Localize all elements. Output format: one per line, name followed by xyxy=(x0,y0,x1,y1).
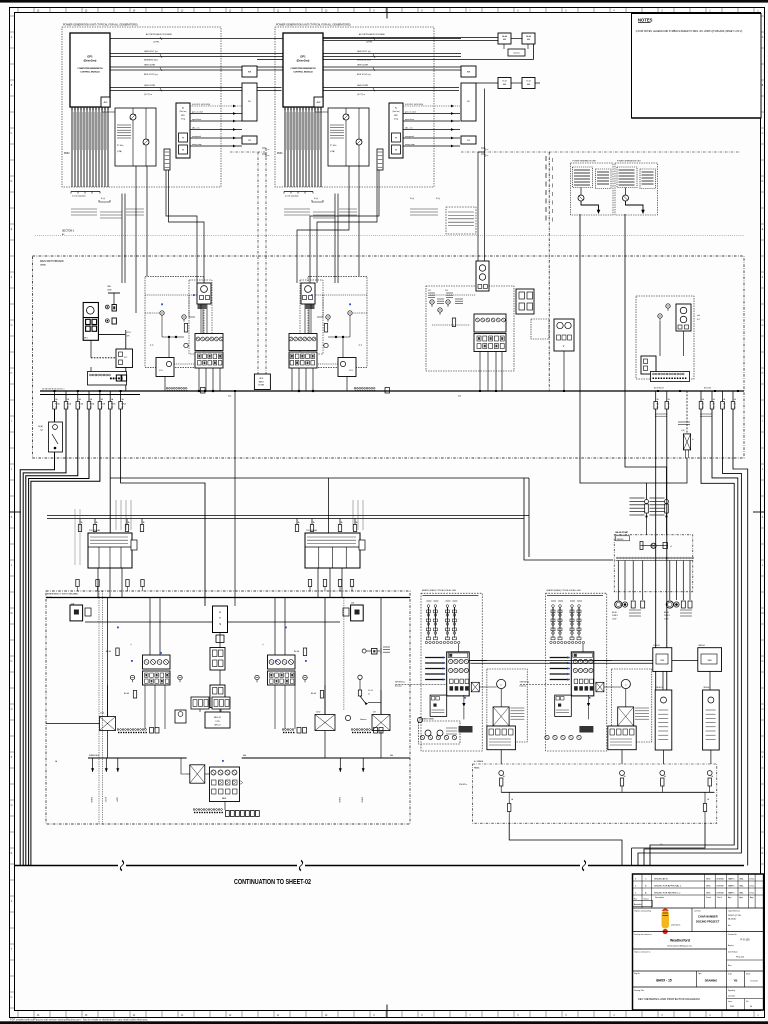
svg-text:30 34E 34E B 34u 34 BT 1u: 30 34E 34E B 34u 34 BT 1u xyxy=(42,389,64,391)
svg-text:G: G xyxy=(11,325,13,327)
svg-text:SENSING (3u): SENSING (3u) xyxy=(144,60,158,62)
svg-text:NORM2: NORM2 xyxy=(717,886,725,888)
svg-text:O: O xyxy=(11,709,13,711)
svg-text:GEN VOLT (a): GEN VOLT (a) xyxy=(357,51,371,53)
svg-text:GP1: GP1 xyxy=(300,55,306,59)
svg-text:Origin Reference: Origin Reference xyxy=(728,911,740,913)
svg-text:HEATER (SPACE) TYPICAL FOR ALL: HEATER (SPACE) TYPICAL FOR ALL GEN. xyxy=(422,589,457,592)
svg-text:1P: 1P xyxy=(723,407,725,409)
svg-text:TD-01: TD-01 xyxy=(526,81,531,83)
svg-text:J: J xyxy=(11,469,12,471)
svg-text:1P: 1P xyxy=(101,407,103,409)
svg-text:18Ru: 18Ru xyxy=(107,286,111,288)
svg-text:47G: 47G xyxy=(159,370,163,372)
svg-text:1P: 1P xyxy=(713,407,715,409)
svg-text:DOC/NO PROJECT: DOC/NO PROJECT xyxy=(696,920,720,924)
svg-text:47G: 47G xyxy=(349,370,353,372)
svg-text:1) FOR NOTES, LEGEND AND SYMB: 1) FOR NOTES, LEGEND AND SYMBOLS REFER T… xyxy=(636,30,743,33)
svg-text:open/close: open/close xyxy=(192,119,201,121)
svg-text:(3 CT) w: (3 CT) w xyxy=(144,94,152,96)
svg-text:HMI: HMI xyxy=(467,72,471,74)
svg-text:S: S xyxy=(219,622,221,626)
svg-text:T: T xyxy=(219,616,221,620)
svg-text:MAIN SWITCHBOARD: MAIN SWITCHBOARD xyxy=(40,260,64,263)
svg-text:1P: 1P xyxy=(734,407,736,409)
svg-text:SPARE: SPARE xyxy=(338,797,341,803)
svg-text:BUS VOLT (w): BUS VOLT (w) xyxy=(144,74,158,76)
svg-text:Signed by: Signed by xyxy=(728,990,735,992)
svg-text:GEN CURR: GEN CURR xyxy=(144,85,156,87)
svg-text:1P: 1P xyxy=(668,407,670,409)
svg-text:P1Q-100: P1Q-100 xyxy=(736,957,745,959)
svg-text:3PH 3W 1u: 3PH 3W 1u xyxy=(459,784,467,786)
svg-text:01 of 02: 01 of 02 xyxy=(750,981,758,983)
svg-text:41-1: 41-1 xyxy=(428,290,431,292)
svg-text:M: M xyxy=(11,613,13,615)
svg-text:MDB-01: MDB-01 xyxy=(656,687,663,689)
svg-text:UPS: UPS xyxy=(259,378,264,380)
svg-text:4 (G): 4 (G) xyxy=(681,430,685,432)
svg-text:S-1: S-1 xyxy=(697,319,700,321)
svg-text:idle - run: idle - run xyxy=(405,126,412,129)
svg-text:(3 CT) w: (3 CT) w xyxy=(357,94,365,96)
svg-text:HARF1: HARF1 xyxy=(728,892,735,895)
svg-text:(MSB): (MSB) xyxy=(40,265,46,267)
svg-text:CONTROL MODULE: CONTROL MODULE xyxy=(80,72,100,74)
svg-text:u2: u2 xyxy=(670,546,672,548)
svg-text:idle - run: idle - run xyxy=(192,126,199,129)
svg-text:BHXX - 15: BHXX - 15 xyxy=(656,979,671,983)
svg-text:GHD: GHD xyxy=(706,886,711,888)
svg-text:Issue: Issue xyxy=(728,1001,732,1003)
svg-text:2h / 2h: 2h / 2h xyxy=(368,690,373,692)
svg-text:POWER GENERATION UNIT (TYPICAL: POWER GENERATION UNIT (TYPICAL FOR ALL G… xyxy=(276,24,351,27)
svg-text:ISSUED FOR REVIEW 1-2: ISSUED FOR REVIEW 1-2 xyxy=(654,893,681,895)
svg-text:B (2) (w): B (2) (w) xyxy=(520,686,527,688)
svg-text:CHAR NUMBER: CHAR NUMBER xyxy=(698,915,718,919)
svg-text:PMG: PMG xyxy=(64,152,70,155)
svg-text:GEN SW (w): GEN SW (w) xyxy=(520,682,530,684)
svg-text:O: O xyxy=(762,709,764,711)
svg-text:(1 PH): (1 PH) xyxy=(153,42,159,44)
svg-text:Drawn: Drawn xyxy=(706,896,711,899)
svg-text:M: M xyxy=(762,613,764,615)
svg-text:UA-AH: UA-AH xyxy=(502,35,508,38)
svg-text:(DriveGen): (DriveGen) xyxy=(297,60,310,63)
svg-text:(4 PA): (4 PA) xyxy=(117,150,122,153)
svg-text:TR-1 30kVA: TR-1 30kVA xyxy=(89,529,100,532)
svg-text:SPARE: SPARE xyxy=(361,797,364,803)
svg-text:GEN CURR: GEN CURR xyxy=(357,85,369,87)
svg-text:F.1: F.1 xyxy=(723,404,725,406)
svg-text:HEATER (SPACE) TYPICAL FOR ALL: HEATER (SPACE) TYPICAL FOR ALL GEN. xyxy=(547,589,582,592)
svg-text:overspeed: overspeed xyxy=(405,135,414,138)
svg-text:B-PMP: B-PMP xyxy=(104,797,106,803)
svg-text:1P: 1P xyxy=(67,407,69,409)
svg-text:4-20 VDC (GOV SIG): 4-20 VDC (GOV SIG) xyxy=(192,104,210,106)
svg-text:SENSING (3u): SENSING (3u) xyxy=(357,60,371,62)
svg-text:100W: 100W xyxy=(107,289,112,291)
svg-text:GEN VOLT (a): GEN VOLT (a) xyxy=(144,51,158,53)
svg-text:BILGE: BILGE xyxy=(664,612,669,614)
svg-text:52G1: 52G1 xyxy=(100,713,104,715)
svg-text:AC RIPPLE/AUX VOLTAGE: AC RIPPLE/AUX VOLTAGE xyxy=(359,33,385,36)
svg-text:Drawing Title: Drawing Title xyxy=(634,989,644,992)
svg-text:Description: Description xyxy=(655,896,664,899)
svg-text:PMS-01: PMS-01 xyxy=(654,645,661,647)
svg-text:4 (x): 4 (x) xyxy=(101,198,105,200)
svg-text:GEN CURR: GEN CURR xyxy=(144,64,156,66)
svg-text:Scale: Scale xyxy=(728,974,732,976)
svg-text:NORM2: NORM2 xyxy=(717,893,725,895)
svg-text:to volt regulator: to volt regulator xyxy=(72,195,86,198)
svg-text:Appr: Appr xyxy=(740,896,744,899)
svg-text:LIGHT: LIGHT xyxy=(115,797,117,802)
svg-text:E- SPARE: E- SPARE xyxy=(474,760,484,763)
svg-text:A: A xyxy=(219,610,221,614)
svg-text:open/close: open/close xyxy=(405,119,414,121)
svg-text:P-O-100: P-O-100 xyxy=(740,939,750,942)
svg-text:1P: 1P xyxy=(121,407,123,409)
svg-text:AVR: AVR xyxy=(104,101,108,104)
svg-text:4 (x): 4 (x) xyxy=(410,198,414,200)
svg-text:overspeed: overspeed xyxy=(192,135,201,138)
svg-text:1ph: 1ph xyxy=(40,430,43,432)
svg-text:MHC-01: MHC-01 xyxy=(214,725,220,727)
svg-text:GEN SW (w): GEN SW (w) xyxy=(395,682,405,684)
svg-text:ISSUED FOR APPROVAL 2: ISSUED FOR APPROVAL 2 xyxy=(654,885,682,888)
svg-text:MHt: MHt xyxy=(243,754,247,757)
svg-text:BMS-01: BMS-01 xyxy=(699,645,706,647)
svg-text:26387 QT DB: 26387 QT DB xyxy=(728,915,741,917)
svg-text:Rev: Rev xyxy=(634,899,637,901)
svg-text:4-20 VDC (GOV SIG): 4-20 VDC (GOV SIG) xyxy=(405,104,423,106)
svg-text:POWER GENERATION UNIT (TYPICAL: POWER GENERATION UNIT (TYPICAL FOR ALL G… xyxy=(63,24,138,27)
svg-text:47%1: 47%1 xyxy=(127,332,131,334)
svg-text:CONTINUATION TO SHEET-02: CONTINUATION TO SHEET-02 xyxy=(234,879,311,886)
svg-text:SECTION-1: SECTION-1 xyxy=(62,231,75,233)
svg-text:gen run cmd: gen run cmd xyxy=(192,110,203,113)
svg-text:PT 100u: PT 100u xyxy=(117,145,123,147)
svg-text:AVR: AVR xyxy=(317,101,321,104)
svg-text:(DriveGen): (DriveGen) xyxy=(84,60,97,63)
svg-text:J: J xyxy=(762,469,763,471)
svg-text:PUMP-1: PUMP-1 xyxy=(612,615,618,617)
svg-text:F.1: F.1 xyxy=(668,404,670,406)
svg-text:UA-AH: UA-AH xyxy=(526,35,532,38)
svg-text:POWER GENERATION UNIT: POWER GENERATION UNIT xyxy=(617,160,642,163)
svg-text:52G2: 52G2 xyxy=(316,712,320,714)
svg-text:(1 PH): (1 PH) xyxy=(366,42,372,44)
svg-text:SPARE BUS: SPARE BUS xyxy=(89,754,100,757)
svg-text:CONTROL MODULE: CONTROL MODULE xyxy=(293,72,313,74)
svg-text:EMERGENCY SWITCHBOARD: EMERGENCY SWITCHBOARD xyxy=(47,593,78,596)
svg-text:5.5kW: 5.5kW xyxy=(664,618,669,620)
svg-text:BILGE: BILGE xyxy=(612,612,617,614)
svg-text:GHD: GHD xyxy=(706,893,711,895)
svg-text:4 (x): 4 (x) xyxy=(314,198,318,200)
svg-text:COMPUTER/GENERATOR: COMPUTER/GENERATOR xyxy=(77,67,103,70)
svg-text:AC RIPPLE/AUX VOLTAGE: AC RIPPLE/AUX VOLTAGE xyxy=(146,33,172,36)
svg-text:1P: 1P xyxy=(55,407,57,409)
svg-text:SPARE: SPARE xyxy=(90,797,93,803)
svg-text:PMG: PMG xyxy=(277,152,283,155)
svg-text:GHD: GHD xyxy=(706,879,711,881)
svg-text:1P: 1P xyxy=(702,407,704,409)
svg-text:1Ph: 1Ph xyxy=(127,335,130,337)
svg-text:Born: Born xyxy=(728,965,731,967)
svg-text:International Malaysia Inc.: International Malaysia Inc. xyxy=(667,945,693,948)
svg-text:Type: Type xyxy=(698,973,702,975)
svg-text:emerg stop: emerg stop xyxy=(192,143,201,146)
svg-text:MHt: MHt xyxy=(390,754,394,757)
svg-text:BUS VOLT (w): BUS VOLT (w) xyxy=(357,74,371,76)
svg-text:Weatherford: Weatherford xyxy=(670,939,690,943)
svg-text:(PwrCom): (PwrCom) xyxy=(392,111,400,113)
svg-text:Q: Q xyxy=(11,805,13,807)
svg-text:COMPUTER/GENERATOR: COMPUTER/GENERATOR xyxy=(290,67,316,70)
svg-text:POWER GENERATION UNIT: POWER GENERATION UNIT xyxy=(573,160,598,163)
svg-text:MHC-01: MHC-01 xyxy=(214,717,221,719)
svg-text:1P: 1P xyxy=(90,407,92,409)
svg-text:Appr: Appr xyxy=(728,896,732,899)
svg-text:KEY METERING AND PROTECTION DI: KEY METERING AND PROTECTION DIAGRAM xyxy=(638,997,700,1001)
svg-text:Available: Available xyxy=(634,903,642,906)
svg-text:PUMP-2: PUMP-2 xyxy=(664,615,670,617)
svg-text:YB: YB xyxy=(734,979,738,983)
svg-text:4x1: 4x1 xyxy=(660,844,663,846)
svg-text:1P: 1P xyxy=(111,407,113,409)
svg-text:HARF1: HARF1 xyxy=(728,885,735,888)
svg-text:PANEL: PANEL xyxy=(474,767,480,770)
svg-text:41-2: 41-2 xyxy=(445,290,448,292)
svg-text:BILGE PUMP: BILGE PUMP xyxy=(616,532,629,534)
svg-text:Q: Q xyxy=(762,805,764,807)
svg-text:4 (x): 4 (x) xyxy=(436,198,440,200)
svg-text:2u: 2u xyxy=(368,694,370,696)
svg-text:G: G xyxy=(762,325,764,327)
svg-text:Status: Status xyxy=(644,898,649,901)
svg-text:B4 B4 B4: B4 B4 B4 xyxy=(704,388,711,390)
svg-text:F.1: F.1 xyxy=(702,404,704,406)
svg-text:HARF1: HARF1 xyxy=(728,878,735,881)
svg-text:and htpchs.: and htpchs. xyxy=(671,924,681,927)
svg-text:F.1: F.1 xyxy=(657,404,659,406)
svg-text:(PwrCom): (PwrCom) xyxy=(179,111,187,113)
svg-text:GEN CURR: GEN CURR xyxy=(357,64,369,66)
svg-text:to volt regulator: to volt regulator xyxy=(285,195,299,198)
svg-text:B (2) (w): B (2) (w) xyxy=(395,686,402,688)
svg-text:F.1: F.1 xyxy=(713,404,715,406)
svg-text:HMI: HMI xyxy=(248,72,252,74)
svg-text:GP1: GP1 xyxy=(87,55,93,59)
svg-text:EX-SPARE PANEL: EX-SPARE PANEL xyxy=(419,718,434,721)
svg-text:Appr: Appr xyxy=(750,896,754,899)
svg-text:MDB-01: MDB-01 xyxy=(704,687,711,689)
svg-text:1P: 1P xyxy=(79,407,81,409)
svg-text:emerg stop: emerg stop xyxy=(405,143,414,146)
svg-text:NORM2: NORM2 xyxy=(717,879,725,881)
svg-text:Check: Check xyxy=(717,897,722,899)
svg-text:ISSUED AS B: ISSUED AS B xyxy=(654,878,668,881)
svg-text:TD-01: TD-01 xyxy=(502,81,507,83)
svg-text:(4 PA): (4 PA) xyxy=(330,150,335,153)
svg-text:G1(A): G1(A) xyxy=(38,425,43,428)
svg-text:NOTES: NOTES xyxy=(638,18,653,23)
svg-text:PT 100u: PT 100u xyxy=(330,145,336,147)
svg-text:DRAWING: DRAWING xyxy=(705,979,718,983)
svg-text:TR-2 30kVA: TR-2 30kVA xyxy=(306,529,317,532)
svg-text:(B-2001): (B-2001) xyxy=(728,919,736,921)
svg-text:PDF created with pdfFactory tr: PDF created with pdfFactory trial versio… xyxy=(10,1017,148,1021)
svg-text:1P: 1P xyxy=(657,407,659,409)
svg-text:gen run cmd: gen run cmd xyxy=(405,110,416,113)
svg-text:B4 B4 B4 B4: B4 B4 B4 B4 xyxy=(654,388,664,390)
svg-text:Dwg No.: Dwg No. xyxy=(634,973,641,975)
svg-text:Rev: Rev xyxy=(728,925,731,927)
svg-text:F.1: F.1 xyxy=(734,404,736,406)
svg-text:5.5kW: 5.5kW xyxy=(612,618,617,620)
